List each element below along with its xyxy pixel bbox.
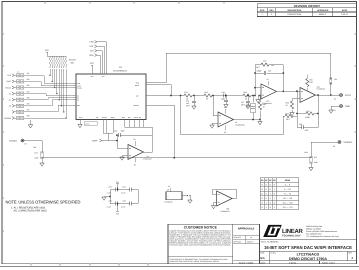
revision history table — [257, 4, 356, 17]
svg-text:RN1-R7: RN1-R7 — [69, 59, 76, 62]
wire RFB sense — [149, 53, 331, 95]
resistor R25 opt — [306, 75, 313, 92]
U1 bottom refs to VREF node — [103, 123, 152, 141]
svg-text:MARK T.: MARK T. — [319, 13, 327, 16]
svg-text:OPT: OPT — [310, 81, 313, 84]
op-amp U1A LT1469 — [261, 78, 277, 105]
svg-text:TITLE: SCHEMATIC: TITLE: SCHEMATIC — [261, 241, 280, 244]
svg-text:2-23-11: 2-23-11 — [341, 13, 349, 16]
approvals box — [233, 224, 260, 264]
capacitor C21 feedback — [114, 129, 152, 152]
svg-text:EXT: EXT — [314, 156, 317, 159]
feedback R27 4.99K — [296, 90, 319, 119]
capacitor C27 opt to gnd — [241, 95, 250, 109]
wire U1A output to U2A — [277, 90, 301, 92]
capacitor C31 — [104, 190, 138, 204]
wire lower return path — [181, 96, 284, 135]
svg-text:C25: C25 — [268, 70, 271, 73]
reference U5 box — [164, 185, 192, 203]
svg-text:R27: R27 — [307, 110, 310, 113]
svg-text:E2: E2 — [334, 109, 336, 112]
supply bypass capacitors — [102, 181, 138, 215]
svg-text:-2.5 → +2.5: -2.5 → +2.5 — [282, 201, 293, 204]
svg-text:JP8: JP8 — [27, 115, 30, 118]
svg-text:VOSADJ: VOSADJ — [344, 141, 353, 144]
svg-text:VCC: VCC — [90, 62, 95, 65]
svg-text:SPAN: SPAN — [285, 179, 291, 182]
capacitor C26 — [221, 91, 227, 101]
svg-text:REV: REV — [269, 9, 274, 12]
resistor R22 feedback — [256, 60, 275, 69]
svg-text:JP3: JP3 — [27, 84, 30, 87]
svg-text:JP4: JP4 — [27, 90, 30, 93]
svg-text:0.1uF: 0.1uF — [107, 205, 111, 208]
VOSADJ net wire across sheet — [42, 135, 311, 158]
gnd pin group box below U1 — [84, 122, 97, 126]
softspan table — [260, 178, 298, 210]
turret E1 VOUT — [334, 94, 352, 101]
svg-text:C33: C33 — [109, 186, 112, 189]
svg-text:4.99K: 4.99K — [305, 116, 310, 119]
notes — [6, 200, 81, 213]
pin stubs U1 — [73, 71, 149, 123]
svg-text:—: — — [261, 14, 263, 16]
svg-text:APP ENG.: APP ENG. — [234, 240, 242, 243]
resistor R28 — [283, 112, 297, 121]
wire ROFS — [149, 85, 171, 96]
svg-text:VCC: VCC — [45, 49, 50, 52]
svg-text:+: + — [168, 195, 169, 198]
svg-text:JP6: JP6 — [27, 103, 30, 106]
resistor network pull-up drops — [50, 69, 66, 118]
svg-text:-5 → +5: -5 → +5 — [284, 192, 292, 195]
sheet bottom trim line — [0, 266, 359, 268]
svg-text:ALL CAPACITORS ARE 0603.: ALL CAPACITORS ARE 0603. — [14, 210, 48, 213]
jumper JP4 on sense line — [330, 78, 337, 85]
op-amp U2A LT1469 output — [300, 85, 325, 102]
power flag VCC at U1 top — [90, 62, 95, 71]
svg-text:DESCRIPTION: DESCRIPTION — [288, 9, 302, 12]
svg-text:2-23-11: 2-23-11 — [289, 262, 297, 265]
svg-text:REFPIN: REFPIN — [4, 117, 11, 120]
svg-text:U3: U3 — [235, 121, 237, 124]
svg-text:SFLAG: SFLAG — [5, 86, 11, 89]
svg-text:0.1uF: 0.1uF — [121, 191, 125, 194]
svg-text:GND: GND — [345, 105, 350, 108]
ground at U3 non-inverting input — [210, 123, 218, 128]
svg-text:JP7: JP7 — [27, 109, 30, 112]
wires jumpers to U1 left pins — [14, 75, 73, 118]
svg-text:C34: C34 — [123, 186, 126, 189]
wire node to U1A inputs — [255, 88, 261, 100]
wire main node to U3 inverting input — [213, 96, 218, 116]
svg-text:NOTE: UNLESS OTHERWISE SPECIFI: NOTE: UNLESS OTHERWISE SPECIFIED — [6, 200, 81, 205]
svg-text:100pF: 100pF — [257, 70, 263, 73]
svg-text:APPROVALS: APPROVALS — [238, 227, 255, 230]
wire VREF to U4 — [102, 135, 128, 148]
svg-text:0.1uF: 0.1uF — [121, 205, 125, 208]
resistor R24 — [204, 91, 212, 101]
svg-text:0 → 5: 0 → 5 — [285, 183, 291, 186]
svg-text:0.1uF: 0.1uF — [107, 191, 111, 194]
power flag VCC at resistor network — [45, 49, 50, 56]
svg-text:ECO: ECO — [260, 9, 265, 12]
svg-text:R28: R28 — [286, 112, 289, 115]
svg-text:PCB DES.: PCB DES. — [234, 236, 242, 239]
resistor R26 — [243, 91, 251, 101]
op-amp U3 LTC2054 — [218, 106, 245, 134]
svg-text:PRODUCTION: PRODUCTION — [288, 13, 302, 16]
wire U3 output — [234, 119, 261, 121]
svg-text:C23: C23 — [263, 60, 266, 63]
svg-text:EXT: EXT — [35, 152, 38, 155]
svg-text:16-BIT SOFT SPAN DAC W/SPI INT: 16-BIT SOFT SPAN DAC W/SPI INTERFACE — [264, 245, 352, 250]
customer notice box — [168, 224, 233, 263]
svg-text:JP10: JP10 — [304, 151, 308, 154]
svg-text:R24: R24 — [205, 91, 208, 94]
resistor R30 — [258, 95, 266, 125]
svg-text:N/A: N/A — [260, 257, 265, 260]
svg-text:R21: R21 — [185, 91, 188, 94]
title block — [260, 224, 357, 264]
svg-text:U5: U5 — [167, 189, 169, 192]
op-amp U4 reference buffer — [128, 138, 152, 166]
ground at U1 gnd pin — [78, 123, 82, 128]
svg-text:LTC2756ACG: LTC2756ACG — [113, 70, 127, 73]
wire VOSADJ E3 to JP9 — [24, 141, 42, 152]
ground at U1A non-inverting input — [256, 100, 260, 103]
svg-text:C36: C36 — [123, 200, 126, 203]
svg-text:VREF: VREF — [92, 139, 98, 142]
svg-text:LDAC: LDAC — [6, 80, 11, 83]
svg-text:VOUT: VOUT — [345, 94, 352, 97]
svg-text:JP9: JP9 — [33, 146, 36, 149]
svg-text:C27: C27 — [241, 101, 244, 104]
wires from connectors to U1 top — [97, 42, 106, 71]
svg-text:S1: S1 — [9, 99, 11, 102]
input connectors CSB SCK SDI SDO — [89, 41, 94, 57]
svg-text:JP2: JP2 — [27, 78, 30, 81]
wire U1 VOSADJ pin to net — [149, 105, 174, 158]
svg-text:SCK: SCK — [89, 45, 94, 48]
svg-text:SCALE = NONE: SCALE = NONE — [239, 262, 254, 265]
wire U2A output to VOUT — [316, 94, 340, 96]
VOSADJ turret E3 left — [9, 139, 27, 146]
svg-text:0 → 10: 0 → 10 — [284, 188, 291, 191]
svg-text:E4: E4 — [333, 145, 335, 148]
capacitor C24 to gnd — [224, 95, 228, 108]
ground at U4 +input — [120, 156, 128, 161]
svg-text:SDI: SDI — [90, 50, 94, 53]
svg-text:-10 → +10: -10 → +10 — [283, 197, 293, 200]
svg-text:S2: S2 — [9, 92, 11, 95]
turret E4 VOSADJ right — [311, 141, 352, 153]
svg-text:IC NO.: IC NO. — [271, 252, 277, 255]
svg-text:C26: C26 — [222, 91, 225, 94]
jumper JP9 ext/gnd — [33, 146, 43, 159]
wire DAC OUT chain — [149, 95, 255, 97]
op-amp U3B spare — [211, 189, 236, 213]
svg-text:LTC Confidential-For Customer: LTC Confidential-For Customer Use Only — [306, 235, 339, 238]
svg-text:CUSTOMER NOTICE: CUSTOMER NOTICE — [184, 226, 218, 230]
svg-text:SHEET 1 OF 2: SHEET 1 OF 2 — [322, 262, 335, 265]
svg-text:JP1: JP1 — [27, 72, 30, 75]
svg-text:APPROVED: APPROVED — [317, 9, 329, 12]
VREF input connector — [92, 139, 102, 142]
svg-text:DATE: DATE — [342, 9, 348, 12]
svg-text:MARK T.: MARK T. — [247, 240, 254, 243]
capacitor C25 feedback — [257, 70, 272, 75]
resistor R21 — [184, 91, 192, 101]
svg-text:JP5: JP5 — [27, 96, 30, 99]
resistor R29 at U2A +input — [286, 99, 301, 116]
capacitor C30 opt parallel — [297, 114, 318, 132]
svg-text:DATE:: DATE: — [260, 261, 266, 264]
svg-text:U4: U4 — [147, 155, 149, 158]
jumper JP10 ext/gnd right — [304, 151, 319, 171]
svg-text:S0: S0 — [9, 105, 11, 108]
svg-text:SDO: SDO — [89, 54, 94, 57]
capacitor C22 opt to gnd — [186, 95, 196, 110]
svg-text:C21: C21 — [114, 129, 117, 132]
ground at JP9 — [40, 159, 44, 167]
node at chain end — [254, 95, 256, 97]
svg-text:E3: E3 — [25, 143, 27, 146]
svg-text:-2.5 → +7.5: -2.5 → +7.5 — [282, 206, 293, 209]
svg-text:CSB: CSB — [89, 41, 94, 44]
feedback network U1A — [255, 65, 283, 92]
svg-text:E1: E1 — [334, 97, 336, 100]
turret E2 GND — [329, 105, 350, 114]
svg-text:DEMO CIRCUIT 1790A: DEMO CIRCUIT 1790A — [289, 257, 327, 261]
svg-text:VOSADJ: VOSADJ — [9, 139, 17, 142]
svg-text:REVISION HISTORY: REVISION HISTORY — [294, 4, 321, 8]
svg-text:C35: C35 — [109, 200, 112, 203]
capacitor C28 opt — [246, 95, 255, 121]
svg-text:TECHNOLOGY: TECHNOLOGY — [282, 235, 301, 238]
resistor network RN1 bus — [47, 56, 76, 68]
svg-text:R26: R26 — [244, 91, 247, 94]
LT logo — [263, 225, 303, 238]
svg-text:C30: C30 — [299, 123, 302, 126]
svg-text:JP4: JP4 — [334, 78, 337, 81]
op-amp U1 DAC LTC2756ACG — [76, 66, 146, 120]
jumper common ground — [28, 120, 32, 128]
